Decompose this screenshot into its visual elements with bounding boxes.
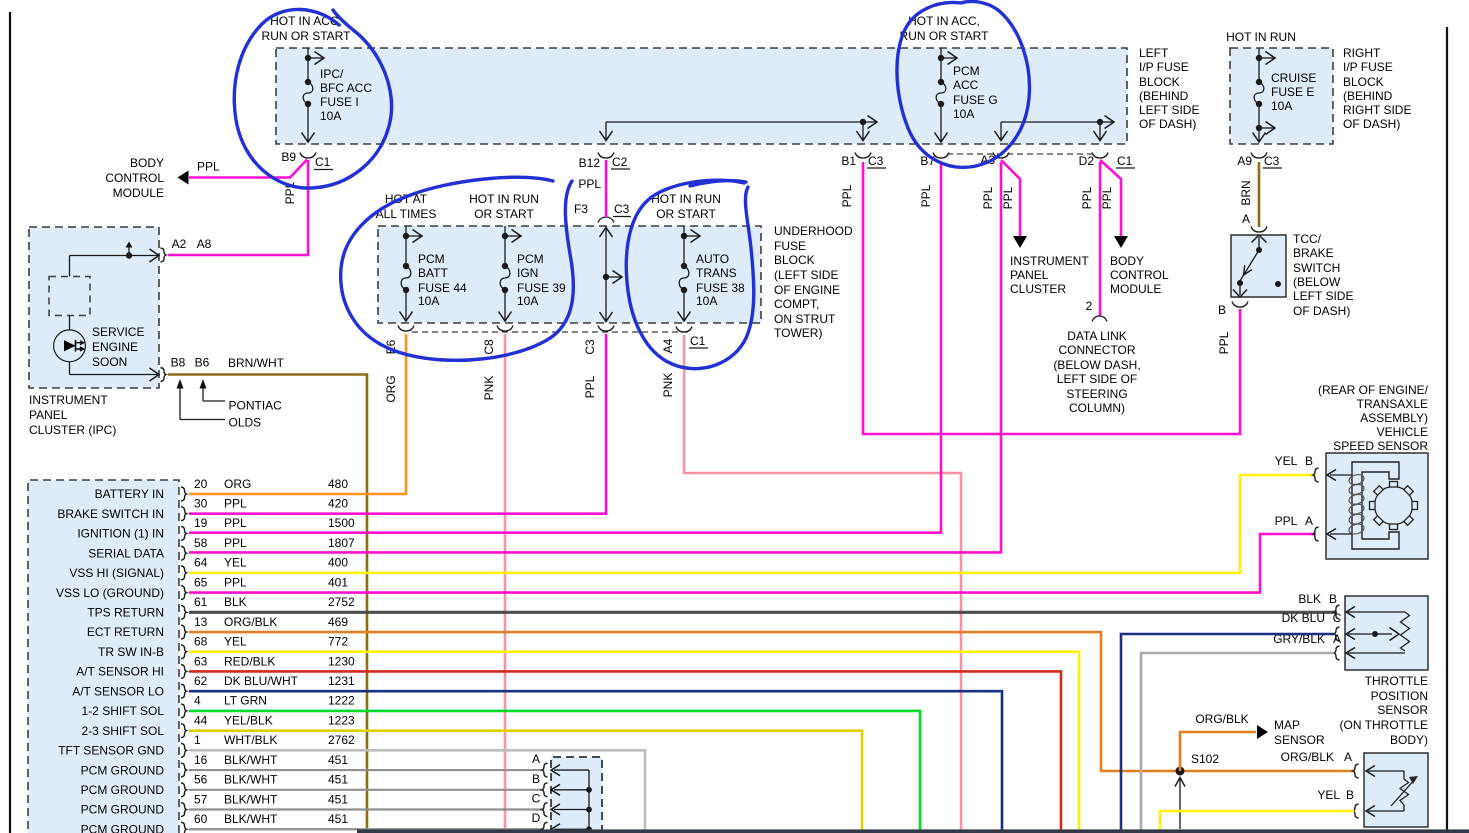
PCM connector box (dashed): [28, 480, 179, 833]
connector cup at DLC: [1092, 316, 1107, 322]
svg-text:64: 64: [194, 556, 208, 570]
svg-text:IGNITION (1) IN: IGNITION (1) IN: [77, 527, 164, 541]
svg-text:(REAR OF ENGINE/: (REAR OF ENGINE/: [1318, 383, 1429, 397]
wire BRN from A9 to TCC brake switch A: [1258, 162, 1261, 227]
svg-text:HOT IN ACC,: HOT IN ACC,: [908, 14, 980, 28]
drop wire to A3: [1000, 122, 1002, 140]
connector F3/C3: [598, 217, 614, 223]
svg-text:PPL: PPL: [224, 497, 247, 511]
fuse PCM BATT FUSE 44 : feed junction dot: [403, 233, 409, 239]
wire PPL A3 branch to instrument panel cluster arrow: [1001, 160, 1020, 237]
svg-text:LEFT SIDE: LEFT SIDE: [1293, 289, 1353, 303]
svg-text:SPEED SENSOR: SPEED SENSOR: [1333, 439, 1428, 453]
TPS connector B: [1334, 605, 1340, 619]
wire resistor to LED: [69, 316, 71, 331]
svg-text:TRANS: TRANS: [696, 266, 737, 280]
svg-text:FUSE 39: FUSE 39: [517, 281, 566, 295]
svg-text:CLUSTER: CLUSTER: [1010, 282, 1066, 296]
svg-text:I/P FUSE: I/P FUSE: [1139, 60, 1189, 74]
ground splice dot B: [586, 787, 592, 793]
wire YEL from A/T sensor B down to PCM: [1160, 811, 1354, 833]
fuse PCM ACC FUSE G : element: [940, 58, 942, 82]
svg-text:PNK: PNK: [661, 373, 675, 398]
svg-text:1807: 1807: [328, 536, 355, 550]
junction dot on telltale feed: [126, 252, 132, 258]
svg-text:30: 30: [194, 497, 208, 511]
connector B7: [933, 153, 949, 159]
hand-drawn circle around AUTO TRANS fuse: [626, 180, 754, 369]
wire PPL from D2 to data link connector: [1099, 162, 1102, 316]
svg-text:FUSE G: FUSE G: [953, 93, 998, 107]
svg-text:20: 20: [194, 477, 208, 491]
svg-text:CONTROL: CONTROL: [1110, 268, 1169, 282]
svg-text:ENGINE: ENGINE: [92, 340, 138, 354]
svg-text:A: A: [1344, 750, 1352, 764]
TCC switch blade: [1240, 250, 1259, 281]
wire BLK/WHT 451 PCM ground 3: [189, 808, 542, 810]
svg-text:BODY: BODY: [130, 156, 164, 170]
svg-text:PPL: PPL: [919, 184, 933, 207]
svg-text:BODY): BODY): [1390, 733, 1428, 747]
bus corner drop to B12: [605, 122, 607, 140]
svg-text:RIGHT: RIGHT: [1343, 46, 1381, 60]
TCC switch common dot: [1237, 280, 1243, 286]
svg-text:SERVICE: SERVICE: [92, 325, 144, 339]
svg-text:OLDS: OLDS: [229, 416, 262, 430]
ground splice arrow C: [554, 809, 589, 811]
bus tap arrow at F3: [606, 276, 621, 278]
wire PPL 420 brake switch in: [189, 334, 606, 514]
VSS tone wheel tooth: [1412, 502, 1418, 510]
svg-text:I/P FUSE: I/P FUSE: [1343, 60, 1393, 74]
svg-text:RUN OR START: RUN OR START: [262, 29, 352, 43]
ground splice connector C: [542, 803, 548, 817]
fuse AUTO TRANS FUSE 38 : supply line: [683, 226, 685, 236]
connector cup at TCC A: [1251, 227, 1267, 233]
svg-text:OR START: OR START: [474, 207, 534, 221]
svg-text:C: C: [532, 792, 541, 806]
svg-text:COLUMN): COLUMN): [1069, 401, 1125, 415]
ground splice connector B: [542, 783, 548, 797]
svg-text:10A: 10A: [320, 109, 341, 123]
wire from feed to resistor: [69, 256, 71, 277]
svg-text:1222: 1222: [328, 694, 355, 708]
svg-text:PPL: PPL: [224, 516, 247, 530]
svg-text:FUSE E: FUSE E: [1271, 85, 1314, 99]
svg-text:PNK: PNK: [482, 376, 496, 401]
SERVICE ENGINE SOON LED circle: [54, 330, 86, 362]
fuse IPC/BFC ACC FUSE I : bus continuation arrow: [308, 57, 323, 59]
arrow to body control module: [178, 171, 189, 185]
VSS lead B arrow: [1330, 474, 1352, 476]
svg-text:58: 58: [194, 536, 208, 550]
svg-text:C1: C1: [690, 334, 706, 348]
svg-text:1231: 1231: [328, 674, 355, 688]
svg-text:TOWER): TOWER): [774, 326, 822, 340]
svg-text:BATTERY IN: BATTERY IN: [95, 487, 164, 501]
underhood fuse block box (dashed): [378, 226, 761, 323]
fuse IPC/BFC ACC FUSE I : supply line: [307, 48, 309, 58]
svg-text:AUTO: AUTO: [696, 252, 729, 266]
VSS tone wheel tooth: [1370, 502, 1376, 510]
svg-text:OF DASH): OF DASH): [1139, 117, 1196, 131]
svg-text:VSS LO (GROUND): VSS LO (GROUND): [56, 586, 164, 600]
svg-text:ORG: ORG: [224, 477, 251, 491]
connector strip dashes under underhood block: [412, 331, 689, 333]
telltale tap arrow up: [128, 247, 130, 256]
svg-text:PCM: PCM: [517, 252, 544, 266]
svg-text:C1: C1: [315, 155, 331, 169]
wire DK BLU from TPS C down to PCM: [1121, 634, 1334, 833]
svg-text:10A: 10A: [418, 294, 439, 308]
svg-text:BLK: BLK: [1298, 592, 1321, 606]
throttle position sensor box: [1345, 596, 1428, 670]
fuse AUTO TRANS FUSE 38 : element: [683, 236, 685, 266]
fuse PCM ACC FUSE G : feed junction dot: [938, 55, 944, 61]
VSS coil: [1348, 473, 1365, 486]
svg-text:ON STRUT: ON STRUT: [774, 312, 836, 326]
svg-text:RED/BLK: RED/BLK: [224, 654, 275, 668]
svg-text:TRANSAXLE: TRANSAXLE: [1357, 397, 1428, 411]
fuse PCM BATT FUSE 44 : output lead: [405, 290, 407, 321]
fuse AUTO TRANS FUSE 38 : bus continuation arrow: [684, 235, 699, 237]
fuse PCM IGN FUSE 39 : feed junction dot: [502, 233, 508, 239]
svg-text:TPS RETURN: TPS RETURN: [87, 606, 164, 620]
connector pair at A2/A8: [161, 248, 167, 262]
svg-text:PPL: PPL: [1100, 186, 1114, 209]
connector cup at TCC B: [1232, 302, 1248, 308]
svg-text:PPL: PPL: [840, 184, 854, 207]
svg-text:ACC: ACC: [953, 78, 979, 92]
svg-text:IGN: IGN: [517, 266, 538, 280]
ground splice bus: [588, 770, 590, 829]
svg-text:PPL: PPL: [1001, 186, 1015, 209]
svg-text:451: 451: [328, 753, 348, 767]
cruise fuse lower tap arrow: [1259, 127, 1274, 129]
bottom PCM module edge band: [357, 829, 1469, 833]
svg-text:HOT IN RUN: HOT IN RUN: [1226, 30, 1296, 44]
VSS lead A arrow: [1330, 533, 1352, 535]
svg-text:1: 1: [194, 733, 201, 747]
connector B9/C1 under IPC fuse: [300, 153, 316, 159]
svg-text:ORG/BLK: ORG/BLK: [1281, 750, 1334, 764]
vehicle speed sensor box: [1326, 453, 1428, 559]
wire ORG/BLK 469 ECT return to S102: [189, 632, 1354, 771]
svg-text:OR START: OR START: [656, 207, 716, 221]
svg-text:ORG/BLK: ORG/BLK: [224, 615, 277, 629]
svg-text:10A: 10A: [953, 107, 974, 121]
TCC brake switch box: [1231, 235, 1286, 297]
fuse PCM ACC FUSE G : supply line: [940, 48, 942, 58]
VSS pole core outline: [1352, 462, 1399, 549]
left I/P fuse block box (dashed): [276, 48, 1127, 144]
fuse CRUISE FUSE E : bus continuation arrow: [1259, 57, 1274, 59]
svg-text:C3: C3: [583, 339, 597, 355]
svg-text:PCM GROUND: PCM GROUND: [81, 822, 165, 833]
svg-text:A4: A4: [661, 338, 675, 353]
svg-text:63: 63: [194, 654, 208, 668]
connector strip dashes under fuse block: [947, 153, 1097, 155]
svg-text:HOT IN ACC,: HOT IN ACC,: [270, 14, 342, 28]
svg-text:S102: S102: [1191, 752, 1219, 766]
svg-text:2752: 2752: [328, 595, 355, 609]
svg-text:4: 4: [194, 694, 201, 708]
wire BLK/WHT 451 PCM ground 1: [189, 769, 542, 771]
svg-text:2: 2: [1086, 299, 1093, 313]
VSS tone wheel tooth: [1374, 516, 1384, 526]
instrument panel cluster box (dashed): [29, 227, 159, 388]
junction dot at D2 drop: [1097, 119, 1103, 125]
svg-text:ORG: ORG: [384, 375, 398, 402]
fuse PCM ACC FUSE G : output lead: [940, 104, 942, 142]
A/T sensor lead B: [1368, 810, 1404, 812]
hand-drawn circle around PCM BATT and PCM IGN fuses: [341, 177, 574, 360]
fuse PCM IGN FUSE 39 : supply line: [504, 226, 506, 236]
svg-text:SENSOR: SENSOR: [1377, 703, 1428, 717]
svg-text:PCM GROUND: PCM GROUND: [81, 763, 165, 777]
svg-text:F3: F3: [574, 202, 588, 216]
TPS wiper: [1348, 633, 1372, 635]
svg-text:ASSEMBLY): ASSEMBLY): [1360, 411, 1428, 425]
wire YEL/BLK 1223 2-3 shift sol: [189, 731, 862, 833]
svg-text:PANEL: PANEL: [1010, 268, 1049, 282]
svg-text:CONTROL: CONTROL: [105, 171, 164, 185]
bus continuation arrow after B1: [863, 121, 876, 123]
svg-text:PPL: PPL: [1217, 331, 1231, 354]
svg-text:BLK/WHT: BLK/WHT: [224, 773, 278, 787]
left page border line: [9, 12, 11, 833]
wire PPL 401 VSS LO: [189, 534, 1316, 593]
A/T sensor connector B: [1353, 804, 1359, 818]
wire PPL from B7 to ignition input row: [189, 162, 941, 533]
VSS connector A: [1313, 527, 1319, 541]
connector A4/C1 cup: [676, 327, 692, 333]
svg-text:ECT RETURN: ECT RETURN: [87, 625, 164, 639]
svg-text:BLK/WHT: BLK/WHT: [224, 792, 278, 806]
svg-text:A2: A2: [172, 237, 187, 251]
svg-text:A: A: [532, 752, 540, 766]
svg-text:SENSOR: SENSOR: [1274, 733, 1325, 747]
A/T sensor lead A: [1368, 770, 1404, 772]
svg-text:YEL/BLK: YEL/BLK: [224, 713, 273, 727]
right I/P fuse block box (dashed): [1230, 48, 1333, 144]
fuse PCM IGN FUSE 39 : bus continuation arrow: [505, 235, 520, 237]
LED cathode bar: [75, 340, 77, 352]
TCC switch pivot dot: [1256, 247, 1262, 253]
telltale resistor dashed rect: [49, 277, 90, 316]
svg-text:B12: B12: [579, 156, 601, 170]
ground splice dot C: [586, 807, 592, 813]
svg-text:1223: 1223: [328, 713, 355, 727]
cruise fuse lower tap dot: [1256, 125, 1262, 131]
svg-text:A: A: [1333, 632, 1341, 646]
ground splice arrow A: [554, 769, 589, 771]
svg-text:60: 60: [194, 812, 208, 826]
svg-text:772: 772: [328, 635, 348, 649]
ground splice arrow B: [554, 789, 589, 791]
svg-text:10A: 10A: [517, 294, 538, 308]
A/T sensor variable arrow: [1391, 778, 1416, 806]
svg-text:61: 61: [194, 595, 208, 609]
svg-text:VEHICLE: VEHICLE: [1377, 425, 1428, 439]
svg-text:401: 401: [328, 575, 348, 589]
svg-text:19: 19: [194, 516, 208, 530]
svg-text:469: 469: [328, 615, 348, 629]
svg-text:TFT SENSOR GND: TFT SENSOR GND: [58, 744, 164, 758]
fuse PCM IGN FUSE 39 : element: [504, 236, 506, 266]
TPS connector C: [1334, 627, 1340, 641]
drop wire to B1: [862, 122, 864, 140]
svg-text:PONTIAC: PONTIAC: [229, 399, 283, 413]
wire RED/BLK 1230 A/T sensor hi: [189, 671, 1061, 833]
wire PPL D2 branch to body control module arrow: [1100, 160, 1121, 237]
fuse CRUISE FUSE E : supply line: [1258, 48, 1260, 58]
svg-text:C3: C3: [868, 154, 884, 168]
svg-text:A/T SENSOR LO: A/T SENSOR LO: [72, 684, 164, 698]
svg-text:VSS HI (SIGNAL): VSS HI (SIGNAL): [69, 566, 164, 580]
svg-text:YEL: YEL: [224, 635, 247, 649]
junction dot at B1 drop: [860, 119, 866, 125]
arrow up to BRN/WHT wire (PONTIAC): [202, 388, 204, 401]
svg-text:BLOCK: BLOCK: [1343, 75, 1384, 89]
A/T sensor resistor zigzag: [1400, 779, 1409, 805]
svg-text:C: C: [1333, 611, 1342, 625]
svg-text:MODULE: MODULE: [113, 186, 164, 200]
svg-text:2-3 SHIFT SOL: 2-3 SHIFT SOL: [82, 724, 165, 738]
wire PNK from AUTO TRANS fuse A4 down and across: [684, 335, 961, 833]
svg-text:FUSE 38: FUSE 38: [696, 281, 745, 295]
svg-text:YEL: YEL: [224, 556, 247, 570]
svg-text:68: 68: [194, 635, 208, 649]
VSS tone wheel: [1375, 487, 1413, 525]
svg-text:(ON THROTTLE: (ON THROTTLE: [1340, 718, 1428, 732]
LED triangle: [64, 340, 76, 351]
connector C8 cup: [497, 326, 513, 332]
svg-text:C8: C8: [482, 339, 496, 355]
svg-text:(BELOW DASH,: (BELOW DASH,: [1053, 358, 1140, 372]
wire BLK/WHT 451 PCM ground 2: [189, 789, 542, 791]
svg-text:PPL: PPL: [981, 186, 995, 209]
svg-text:451: 451: [328, 773, 348, 787]
wire BLK 2752 TPS return: [189, 611, 1337, 614]
svg-text:65: 65: [194, 575, 208, 589]
svg-text:C3: C3: [614, 202, 630, 216]
hand-drawn circle around PCM ACC fuse: [897, 1, 1029, 167]
svg-text:UNDERHOOD: UNDERHOOD: [774, 224, 853, 238]
svg-text:PCM: PCM: [418, 252, 445, 266]
svg-text:STEERING: STEERING: [1066, 387, 1127, 401]
svg-text:451: 451: [328, 812, 348, 826]
svg-text:480: 480: [328, 477, 348, 491]
splice S102 dot: [1176, 767, 1185, 776]
svg-text:CLUSTER (IPC): CLUSTER (IPC): [29, 423, 116, 437]
bus segment A3 to D2: [1001, 121, 1100, 123]
connector E6 cup: [398, 326, 414, 332]
A/T sensor box: [1364, 753, 1428, 827]
svg-text:62: 62: [194, 674, 208, 688]
VSS tone wheel tooth: [1390, 482, 1398, 488]
svg-text:BODY: BODY: [1110, 254, 1144, 268]
svg-text:LT GRN: LT GRN: [224, 694, 267, 708]
svg-text:B8: B8: [171, 356, 186, 370]
svg-text:MAP: MAP: [1274, 718, 1300, 732]
svg-text:SERIAL DATA: SERIAL DATA: [88, 546, 164, 560]
svg-text:PPL: PPL: [578, 177, 601, 191]
svg-text:BRAKE SWITCH IN: BRAKE SWITCH IN: [57, 507, 164, 521]
svg-text:PPL: PPL: [224, 575, 247, 589]
A/T sensor connector A: [1353, 764, 1359, 778]
bus wire through underhood block at F3: [605, 228, 607, 321]
wire YEL 772 TR SW IN-B: [189, 652, 1079, 833]
svg-text:YEL: YEL: [1317, 788, 1340, 802]
svg-text:INSTRUMENT: INSTRUMENT: [1010, 254, 1089, 268]
svg-text:PCM GROUND: PCM GROUND: [81, 783, 165, 797]
wire LED to ground row: [69, 362, 71, 375]
TCC switch open contact dot: [1275, 281, 1281, 287]
connector A9/C3: [1251, 153, 1267, 159]
TPS resistor zigzag: [1401, 612, 1410, 651]
fuse AUTO TRANS FUSE 38 : feed junction dot: [681, 233, 687, 239]
junction dot on F3 bus: [603, 274, 609, 280]
fuse CRUISE FUSE E : output lead: [1258, 104, 1260, 142]
fuse PCM IGN FUSE 39 : output lead: [504, 290, 506, 321]
TPS connector A: [1334, 646, 1340, 660]
bus wire inside fuse block from B12 to B1: [606, 121, 863, 123]
svg-text:WHT/BLK: WHT/BLK: [224, 733, 277, 747]
VSS tone wheel tooth: [1404, 486, 1414, 496]
wire PPL from A8 up to C1 (IPC acc feed): [168, 160, 308, 255]
fuse CRUISE FUSE E : feed junction dot: [1256, 55, 1262, 61]
svg-text:ORG/BLK: ORG/BLK: [1195, 712, 1248, 726]
wire BRN/WHT from B6 to PCM: [168, 375, 367, 830]
VSS connector B: [1313, 468, 1319, 482]
svg-text:DATA LINK: DATA LINK: [1067, 329, 1127, 343]
svg-text:B9: B9: [281, 150, 296, 164]
svg-text:LEFT: LEFT: [1139, 46, 1169, 60]
svg-text:2762: 2762: [328, 733, 355, 747]
svg-text:CONNECTOR: CONNECTOR: [1058, 343, 1135, 357]
svg-text:(BEHIND: (BEHIND: [1139, 89, 1189, 103]
connector D2: [1092, 153, 1108, 159]
svg-text:RUN OR START: RUN OR START: [900, 29, 990, 43]
svg-text:(BEHIND: (BEHIND: [1343, 89, 1393, 103]
LED arrows: [77, 341, 84, 345]
svg-text:PPL: PPL: [224, 536, 247, 550]
svg-text:IPC/: IPC/: [320, 67, 344, 81]
connector pair at B8/B6: [161, 368, 167, 382]
arrow to instrument panel cluster: [1013, 236, 1027, 248]
wire GRY/BLK from TPS A down to PCM: [1141, 653, 1334, 833]
svg-text:PPL: PPL: [1275, 514, 1298, 528]
connector A3: [993, 153, 1009, 159]
TCC switch output lead: [1239, 283, 1241, 295]
svg-text:RIGHT SIDE: RIGHT SIDE: [1343, 103, 1411, 117]
svg-text:BLK/WHT: BLK/WHT: [224, 812, 278, 826]
svg-text:16: 16: [194, 753, 208, 767]
svg-text:TCC/: TCC/: [1293, 232, 1322, 246]
hand-drawn circle tail (auto trans): [690, 181, 746, 186]
arrow to body control module (right): [1114, 236, 1128, 248]
svg-text:OF ENGINE: OF ENGINE: [774, 283, 840, 297]
PONTIAC pointer line: [203, 400, 225, 402]
svg-text:A: A: [1305, 514, 1313, 528]
svg-text:A/T SENSOR HI: A/T SENSOR HI: [76, 665, 164, 679]
svg-text:A9: A9: [1237, 154, 1252, 168]
svg-text:HOT IN RUN: HOT IN RUN: [469, 192, 539, 206]
connector B1/C3: [855, 153, 871, 159]
wire from ECT sensor up to S102: [1179, 779, 1181, 829]
wire ORG 480 battery in: [189, 334, 406, 494]
